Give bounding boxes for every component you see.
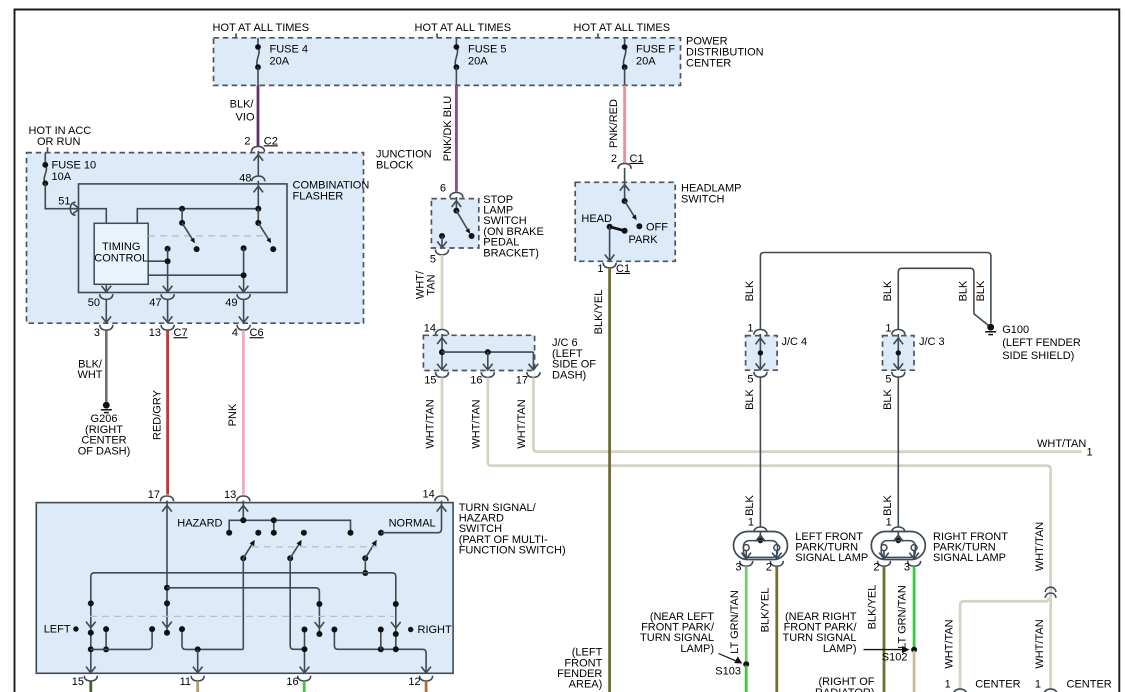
connector pin 1 C1 [603,263,616,268]
svg-text:20A: 20A [270,55,290,67]
label LEFT [73,626,78,631]
svg-text:SIGNAL LAMP: SIGNAL LAMP [795,552,868,564]
svg-text:3: 3 [904,562,910,574]
svg-text:SIGNAL LAMP: SIGNAL LAMP [933,552,1006,564]
svg-text:WHT/: WHT/ [414,270,426,299]
svg-text:11: 11 [180,676,191,688]
fuse FF [622,38,676,86]
svg-text:WHT/TAN: WHT/TAN [1034,619,1046,668]
contact pair V3 [105,629,107,649]
svg-text:50: 50 [88,297,100,309]
svg-text:LT GRN/TAN: LT GRN/TAN [729,590,741,654]
hazard switch arm 2 [287,555,293,561]
svg-text:LT GRN/TAN: LT GRN/TAN [897,585,909,649]
svg-text:1: 1 [748,517,754,529]
svg-text:20A: 20A [636,55,656,67]
leader arrow to S102 [864,649,904,651]
ground G206 [101,402,112,413]
svg-text:48: 48 [239,173,251,185]
connector J/C6 pin 15 [436,372,449,377]
svg-text:3: 3 [94,327,100,339]
svg-text:HAZARD: HAZARD [177,517,222,529]
svg-text:WHT: WHT [77,369,102,381]
svg-text:17: 17 [148,489,160,501]
bus H7 [334,630,426,674]
svg-text:BLK/YEL: BLK/YEL [593,290,605,335]
svg-text:1: 1 [597,263,603,275]
junction block [27,153,364,324]
svg-text:3: 3 [735,562,741,574]
connector J/C6 pin 17 [527,372,540,377]
hazard feed bus [229,520,350,532]
headlamp switch box [575,182,675,261]
svg-text:WHT/TAN: WHT/TAN [425,399,437,448]
svg-text:17: 17 [516,375,528,387]
pin 16 column V9 [304,630,306,674]
flasher switch 1 [179,206,185,212]
svg-text:RED/GRY: RED/GRY [151,389,163,440]
wire WHT/TAN branch to left center connector [960,598,1051,690]
pin 11 drop [197,649,199,673]
svg-text:4: 4 [232,327,238,339]
stop lamp switch box [431,199,478,248]
svg-text:RIGHT: RIGHT [418,624,453,636]
svg-text:C1: C1 [616,263,630,275]
ground G100 [985,324,996,335]
svg-text:47: 47 [149,297,161,309]
svg-text:1: 1 [885,323,891,335]
svg-text:BLK/YEL: BLK/YEL [759,588,771,633]
hazard switch arm 1 [240,555,246,561]
svg-text:C2: C2 [264,135,278,147]
svg-text:14: 14 [423,489,435,501]
svg-text:PARK: PARK [629,234,659,246]
svg-text:SIDE SHIELD): SIDE SHIELD) [1002,350,1074,362]
svg-text:49: 49 [225,297,237,309]
bus H4 with riser V4 [91,629,152,649]
wire 51 entry to timing control [79,209,107,224]
wire BLK/YEL headlamp down [608,268,611,692]
wire BLK J/C4 to left lamp [759,377,761,527]
contact pair V13 [380,630,382,650]
bus H5 with riser V5 [182,629,243,649]
svg-text:BLK: BLK [958,280,970,301]
svg-text:SWITCH: SWITCH [681,193,724,205]
label RIGHT [408,627,413,632]
fuse F10 [42,153,96,187]
svg-text:2: 2 [766,562,772,574]
svg-text:14: 14 [424,322,436,334]
dashed neutral line lower [90,615,394,617]
power distribution center box [214,38,681,86]
svg-text:HEAD: HEAD [581,213,612,225]
svg-text:PNK: PNK [227,403,239,426]
svg-text:FUSE 4: FUSE 4 [270,43,309,55]
svg-text:6: 6 [440,182,446,194]
svg-text:5: 5 [885,374,891,386]
hazard arm2 drop [290,558,304,649]
svg-text:16: 16 [470,375,482,387]
wire 13 entry [242,501,244,521]
svg-text:FUSE 5: FUSE 5 [468,43,507,55]
svg-text:BLOCK: BLOCK [376,160,414,172]
svg-text:WHT/TAN: WHT/TAN [516,399,528,448]
connector pin 15 [84,676,97,681]
svg-text:OFF: OFF [646,222,668,234]
svg-text:J/C 3: J/C 3 [919,336,945,348]
svg-text:CENTER: CENTER [975,679,1020,691]
connector pin 12 [420,676,433,681]
main bus H2 [91,573,396,673]
combination flasher box [79,184,288,293]
svg-text:1: 1 [1035,679,1041,691]
normal switch arm [362,555,368,561]
svg-text:1: 1 [886,517,892,529]
wire WHT/TAN J/C6-16 to right side [488,378,1051,690]
dashed neutral line upper [252,546,378,548]
svg-text:LAMP): LAMP) [823,643,857,655]
hazard arm1 drop to pin 11 bus [242,558,244,649]
svg-text:LAMP): LAMP) [680,643,714,655]
left column contacts [88,600,94,606]
stop lamp switch contacts [455,197,457,211]
svg-text:1: 1 [1087,447,1093,459]
headlamp switch contacts [624,168,626,201]
svg-text:FUNCTION SWITCH): FUNCTION SWITCH) [459,545,566,557]
svg-text:HOT AT ALL TIMES: HOT AT ALL TIMES [415,22,512,34]
svg-text:(LEFT FENDER: (LEFT FENDER [1002,337,1081,349]
svg-text:AREA): AREA) [569,679,603,691]
wire BLK J/C3 to right lamp [897,377,899,527]
wire PNK [242,330,245,494]
svg-text:NORMAL: NORMAL [389,517,436,529]
wire BLK left lamp ground loop [760,253,991,330]
svg-text:20A: 20A [468,55,488,67]
svg-text:BLK: BLK [882,280,894,301]
normal arm drop [364,558,366,573]
svg-text:BLK: BLK [975,280,987,301]
svg-text:OR RUN: OR RUN [37,136,80,148]
svg-text:WHT/TAN: WHT/TAN [944,619,956,668]
svg-text:WHT/TAN: WHT/TAN [1037,438,1086,450]
svg-text:TIMING: TIMING [102,241,141,253]
svg-text:WHT/TAN: WHT/TAN [1034,522,1046,571]
wire WHT/TAN J/C6-15 to switch 14 [441,378,444,495]
svg-text:G100: G100 [1002,324,1029,336]
svg-text:5: 5 [430,254,436,266]
svg-text:2: 2 [873,562,879,574]
svg-text:BLK: BLK [744,494,756,515]
wire WHT/TAN stop lamp to J/C6 [441,255,444,329]
wire fuse10 to flasher pin 51 [45,183,78,208]
fuse F4 [255,38,308,86]
fuse F5 [454,38,507,86]
svg-text:C1: C1 [630,153,644,165]
svg-text:CENTER: CENTER [686,58,731,70]
connector pin 5 [436,250,449,255]
svg-text:BLK: BLK [882,494,894,515]
connector J/C6 pin 16 [481,372,494,377]
svg-text:TAN: TAN [426,274,438,295]
flasher pin 47 branch [165,246,171,252]
svg-text:15: 15 [72,676,84,688]
svg-text:S103: S103 [715,666,741,678]
svg-text:2: 2 [244,135,250,147]
wire into junction block pin 48 [257,151,259,176]
V14 contacts [393,601,399,607]
svg-text:12: 12 [408,676,420,688]
svg-text:C6: C6 [250,327,264,339]
turn signal / hazard switch box [36,503,453,674]
svg-text:S102: S102 [882,651,908,663]
svg-text:BLK: BLK [882,388,894,409]
svg-text:VIO: VIO [236,112,255,124]
svg-text:HOT AT ALL TIMES: HOT AT ALL TIMES [574,22,671,34]
svg-text:RADIATOR): RADIATOR) [815,687,875,692]
wire break symbol [1045,587,1056,592]
wire BLK/YEL right lamp pin2 [883,566,886,692]
wire 48 into flasher [257,181,259,209]
svg-text:OF DASH): OF DASH) [78,445,131,457]
svg-text:1: 1 [945,679,951,691]
connector pin 11 [191,676,204,681]
wire LT GRN/TAN right lamp pin3 [913,566,916,648]
svg-text:15: 15 [424,375,436,387]
junction connector J/C6 box [423,335,534,370]
bus H3 [167,588,319,634]
svg-text:DASH): DASH) [552,369,586,381]
svg-text:BLK: BLK [744,388,756,409]
svg-text:J/C 4: J/C 4 [782,336,808,348]
svg-text:FUSE 10: FUSE 10 [52,160,97,172]
wire BLK/WHT to G206 [105,330,108,402]
svg-text:16: 16 [286,676,298,688]
wire 17 entry chain [166,501,168,633]
normal wire to 14 [381,501,442,533]
svg-text:BLK/: BLK/ [230,99,255,111]
wire PNK/DK BLU [455,85,458,191]
svg-text:2: 2 [611,153,617,165]
svg-text:BRACKET): BRACKET) [483,247,539,259]
splice S103 [743,661,749,667]
svg-text:BLK/YEL: BLK/YEL [866,585,878,630]
svg-text:PNK/DK BLU: PNK/DK BLU [442,96,454,161]
splice S102 [911,647,917,653]
headlamp wiper arm [607,224,613,230]
flasher switch 2 [255,206,261,212]
V10 contacts [316,601,322,607]
wire BLK/VIO [257,85,260,146]
wire BLK/YEL left lamp pin2 [775,566,778,692]
headlamp output to 1 C1 [609,227,611,261]
svg-text:13: 13 [149,327,161,339]
leader arrow to S103 [719,654,736,661]
wire LT GRN/TAN left lamp pin3 [745,566,748,663]
hazard contact dots [255,530,261,536]
flasher internal dashed line [148,235,268,237]
svg-text:HOT AT ALL TIMES: HOT AT ALL TIMES [213,22,310,34]
svg-text:LEFT: LEFT [44,624,71,636]
wire BLK right lamp ground loop [898,268,988,329]
timing control box [94,223,148,284]
svg-text:C7: C7 [174,327,188,339]
svg-text:PNK/RED: PNK/RED [608,99,620,148]
svg-text:CENTER: CENTER [1067,679,1112,691]
svg-text:BLK: BLK [744,280,756,301]
svg-text:5: 5 [747,374,753,386]
svg-text:WHT/TAN: WHT/TAN [471,399,483,448]
svg-text:CONTROL: CONTROL [94,253,148,265]
wire PNK/RED [623,85,626,162]
svg-text:FUSE F: FUSE F [636,43,675,55]
wire RED/GRY [166,330,169,494]
svg-text:FLASHER: FLASHER [293,190,344,202]
svg-text:10A: 10A [52,171,72,183]
svg-text:1: 1 [747,323,753,335]
wire WHT/TAN J/C6-17 to right connector 1 [533,378,1081,452]
svg-text:13: 13 [224,489,236,501]
wire timing control rail to switches [137,209,258,224]
J/C6 internal bus [441,334,443,370]
svg-text:51: 51 [58,196,70,208]
connector pin 16 [298,676,311,681]
flasher pin 49 branch [241,245,247,251]
flasher pin 50 branch [105,284,107,292]
